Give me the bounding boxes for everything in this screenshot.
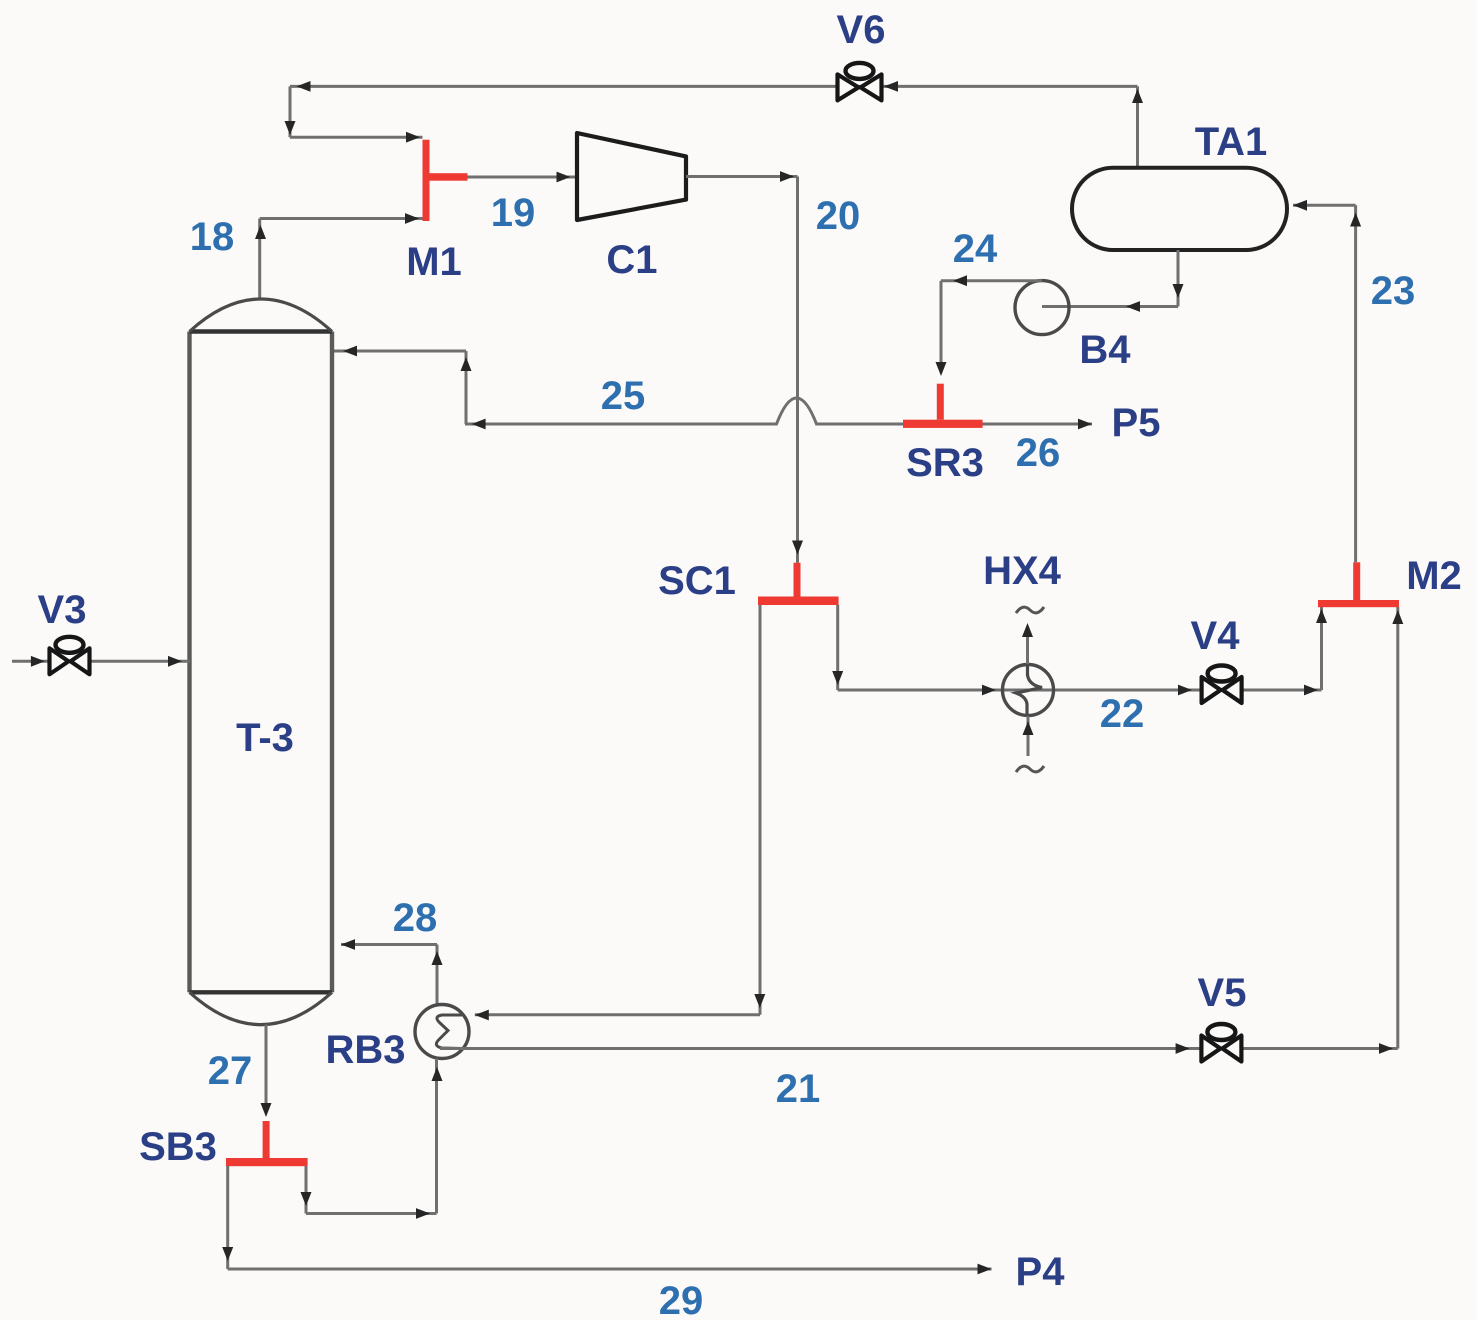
svg-text:29: 29 [659,1279,704,1320]
pump B4 [1015,281,1069,335]
compressor C1 [577,133,686,220]
HX4 utility bottom [1016,716,1044,772]
svg-text:RB3: RB3 [325,1028,405,1072]
svg-text:27: 27 [208,1049,253,1093]
svg-text:V3: V3 [38,588,87,632]
wire SB3 right to RB3 [301,1059,443,1219]
wire stream 24 [936,275,1043,376]
mixer M2 [1318,562,1399,607]
reboiler RB3 [415,1005,469,1059]
svg-text:C1: C1 [606,238,657,282]
svg-text:SR3: SR3 [906,441,984,485]
svg-text:B4: B4 [1079,328,1131,372]
svg-text:V4: V4 [1191,614,1241,658]
wire SC1 to HX4 to V4 to M2 [832,605,1327,695]
svg-text:28: 28 [393,896,438,940]
svg-text:M1: M1 [406,240,462,284]
column T-3 [190,299,333,1025]
mixer M1 [423,140,468,221]
wire stream 28 [341,939,443,1005]
wire stream 18 [255,213,423,300]
wire TA1 bottom to B4 [1042,250,1184,312]
wire M2 right riser from stream 21 [1392,607,1403,1049]
splitter SC1 [758,563,839,605]
svg-text:18: 18 [190,215,235,259]
wire stream 23 [1293,200,1361,562]
wire feed V3 [12,656,190,667]
svg-text:SC1: SC1 [658,559,736,603]
wire recycle V6 line top [285,81,1144,168]
svg-text:SB3: SB3 [139,1125,217,1169]
wire stream 25 and 26 with hop [465,398,1092,429]
valve V5 [1201,1024,1241,1062]
svg-text:20: 20 [816,194,861,238]
wire stream 29 [222,1166,991,1274]
valve V3 [50,637,90,675]
vessel TA1 [1072,168,1287,250]
svg-text:26: 26 [1016,431,1061,475]
svg-text:V5: V5 [1198,971,1247,1015]
valve V4 [1202,666,1242,704]
svg-text:TA1: TA1 [1195,120,1268,164]
wire stream 20 [686,171,803,563]
svg-text:24: 24 [953,227,998,271]
wire SC1 to RB3 [475,605,766,1020]
wire stream 21 [440,1043,1398,1054]
svg-text:T-3: T-3 [236,716,294,760]
svg-text:P4: P4 [1016,1250,1066,1294]
wire stream 19 [467,172,577,183]
svg-text:21: 21 [776,1067,821,1111]
wire stream 27 [261,1025,272,1118]
svg-text:22: 22 [1100,692,1145,736]
svg-text:19: 19 [491,191,536,235]
svg-text:25: 25 [601,374,646,418]
wire stream 25 riser [332,346,472,424]
splitter SB3 [226,1121,308,1166]
valve V6 [838,63,882,101]
heat exchanger HX4 [1003,665,1054,716]
svg-text:HX4: HX4 [983,549,1062,593]
svg-text:M2: M2 [1406,554,1462,598]
svg-text:P5: P5 [1112,401,1161,445]
splitter SR3 [903,384,983,428]
HX4 utility top [1016,607,1044,664]
svg-text:23: 23 [1371,269,1416,313]
svg-text:V6: V6 [837,8,886,52]
